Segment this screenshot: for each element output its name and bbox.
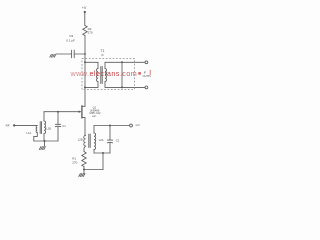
wire source to L2B <box>84 135 87 137</box>
wire Vcc to R2 <box>84 13 86 26</box>
node R1 ground junction <box>83 169 85 171</box>
wire C2 bottom <box>109 143 111 153</box>
capacitor C1 <box>55 124 60 126</box>
resistor R1 <box>82 152 86 167</box>
ground (R1 / bottom) <box>79 174 85 177</box>
svg-text:L1B: L1B <box>46 126 51 130</box>
wire R2 down to drain (main vertical) <box>84 36 86 107</box>
wire L2A bottom <box>93 150 95 154</box>
transformer L2 core <box>89 134 90 148</box>
transistor Q1 channel bar <box>81 106 83 118</box>
svg-text:270: 270 <box>72 161 77 165</box>
svg-text:C9: C9 <box>69 34 73 38</box>
svg-text:RF: RF <box>6 123 10 127</box>
inductor L2B <box>84 136 86 147</box>
svg-text:L1A: L1A <box>27 131 32 135</box>
inductor T1 secondary winding <box>105 69 107 82</box>
node secondary top junction <box>121 61 123 63</box>
wire LO line <box>94 125 130 127</box>
node C9 junction <box>84 53 86 55</box>
wire tuning across secondary <box>121 62 123 87</box>
node C2 junction on LO line <box>109 125 111 127</box>
wire L1 tank bottom rail <box>34 140 58 142</box>
svg-text:L2A: L2A <box>99 138 104 142</box>
wire L1B bottom to ground rail <box>43 134 45 142</box>
wire RF input <box>15 124 37 126</box>
wire R1 bottom <box>83 167 85 174</box>
capacitor C9 <box>72 50 75 58</box>
wire L2 tank bottom rail <box>94 152 110 154</box>
wire C1 top <box>57 112 59 125</box>
svg-text:+V: +V <box>82 6 87 10</box>
transformer L1 core <box>40 122 41 134</box>
wire T1 secondary bottom to IF output <box>105 82 145 88</box>
wire L1B top to gate rail <box>43 112 45 121</box>
svg-text:T1: T1 <box>101 49 105 53</box>
svg-text:IF: IF <box>144 71 147 75</box>
wire Q1 gate lead <box>44 111 79 113</box>
node L1 ground junction <box>44 140 46 142</box>
svg-text:0.1 µF: 0.1 µF <box>66 38 75 42</box>
ground (L1 tank) <box>39 147 45 150</box>
node riser junction <box>102 152 104 154</box>
svg-text:L2B: L2B <box>78 138 83 142</box>
inductor L1B <box>44 121 46 134</box>
capacitor C2 <box>107 140 112 143</box>
inductor L2A <box>94 133 96 150</box>
shield box T1 (dashed) <box>82 59 135 90</box>
node T1 primary top junction <box>84 61 86 63</box>
wire Q1 drain stub <box>82 105 85 107</box>
node IF output terminal top <box>145 61 148 64</box>
node +V supply terminal <box>84 11 86 13</box>
svg-text:270: 270 <box>88 30 93 34</box>
transformer T1 core <box>101 67 102 84</box>
svg-text:etc.: etc. <box>92 114 97 118</box>
inductor T1 primary winding <box>96 69 98 82</box>
svg-text:C1: C1 <box>62 124 66 128</box>
wire riser down <box>102 153 104 170</box>
transistor Q1 gate arrow <box>79 111 82 113</box>
svg-text:C2: C2 <box>116 138 120 142</box>
inductor L1A <box>36 125 37 132</box>
wire bottom return rail <box>84 169 103 171</box>
resistor R2 <box>83 26 87 36</box>
node C1 top junction <box>57 111 59 113</box>
node RF input terminal <box>13 124 15 126</box>
node LO terminal <box>130 124 133 127</box>
wire T1 primary bottom rail <box>85 82 98 88</box>
wire T1 secondary top to IF output <box>105 62 145 68</box>
node T1 primary bottom junction <box>84 86 86 88</box>
wire Q1 source stub and down <box>82 117 85 135</box>
wire C1 bottom <box>57 127 59 141</box>
wire C2 top <box>109 126 111 141</box>
wire L1A bottom <box>34 133 38 141</box>
node secondary bottom junction <box>121 86 123 88</box>
wire T1 primary top rail <box>85 62 98 68</box>
wire ground stem <box>44 141 46 146</box>
wire C9 branch <box>56 53 85 55</box>
wire L2A top to LO line <box>93 126 95 134</box>
svg-text:www.elecfans.com: www.elecfans.com <box>70 69 138 78</box>
wire L2B bottom to R1 <box>84 146 86 152</box>
svg-text:LO: LO <box>136 123 141 127</box>
node IF output terminal bottom <box>145 86 148 89</box>
ground (C9) <box>50 54 56 57</box>
